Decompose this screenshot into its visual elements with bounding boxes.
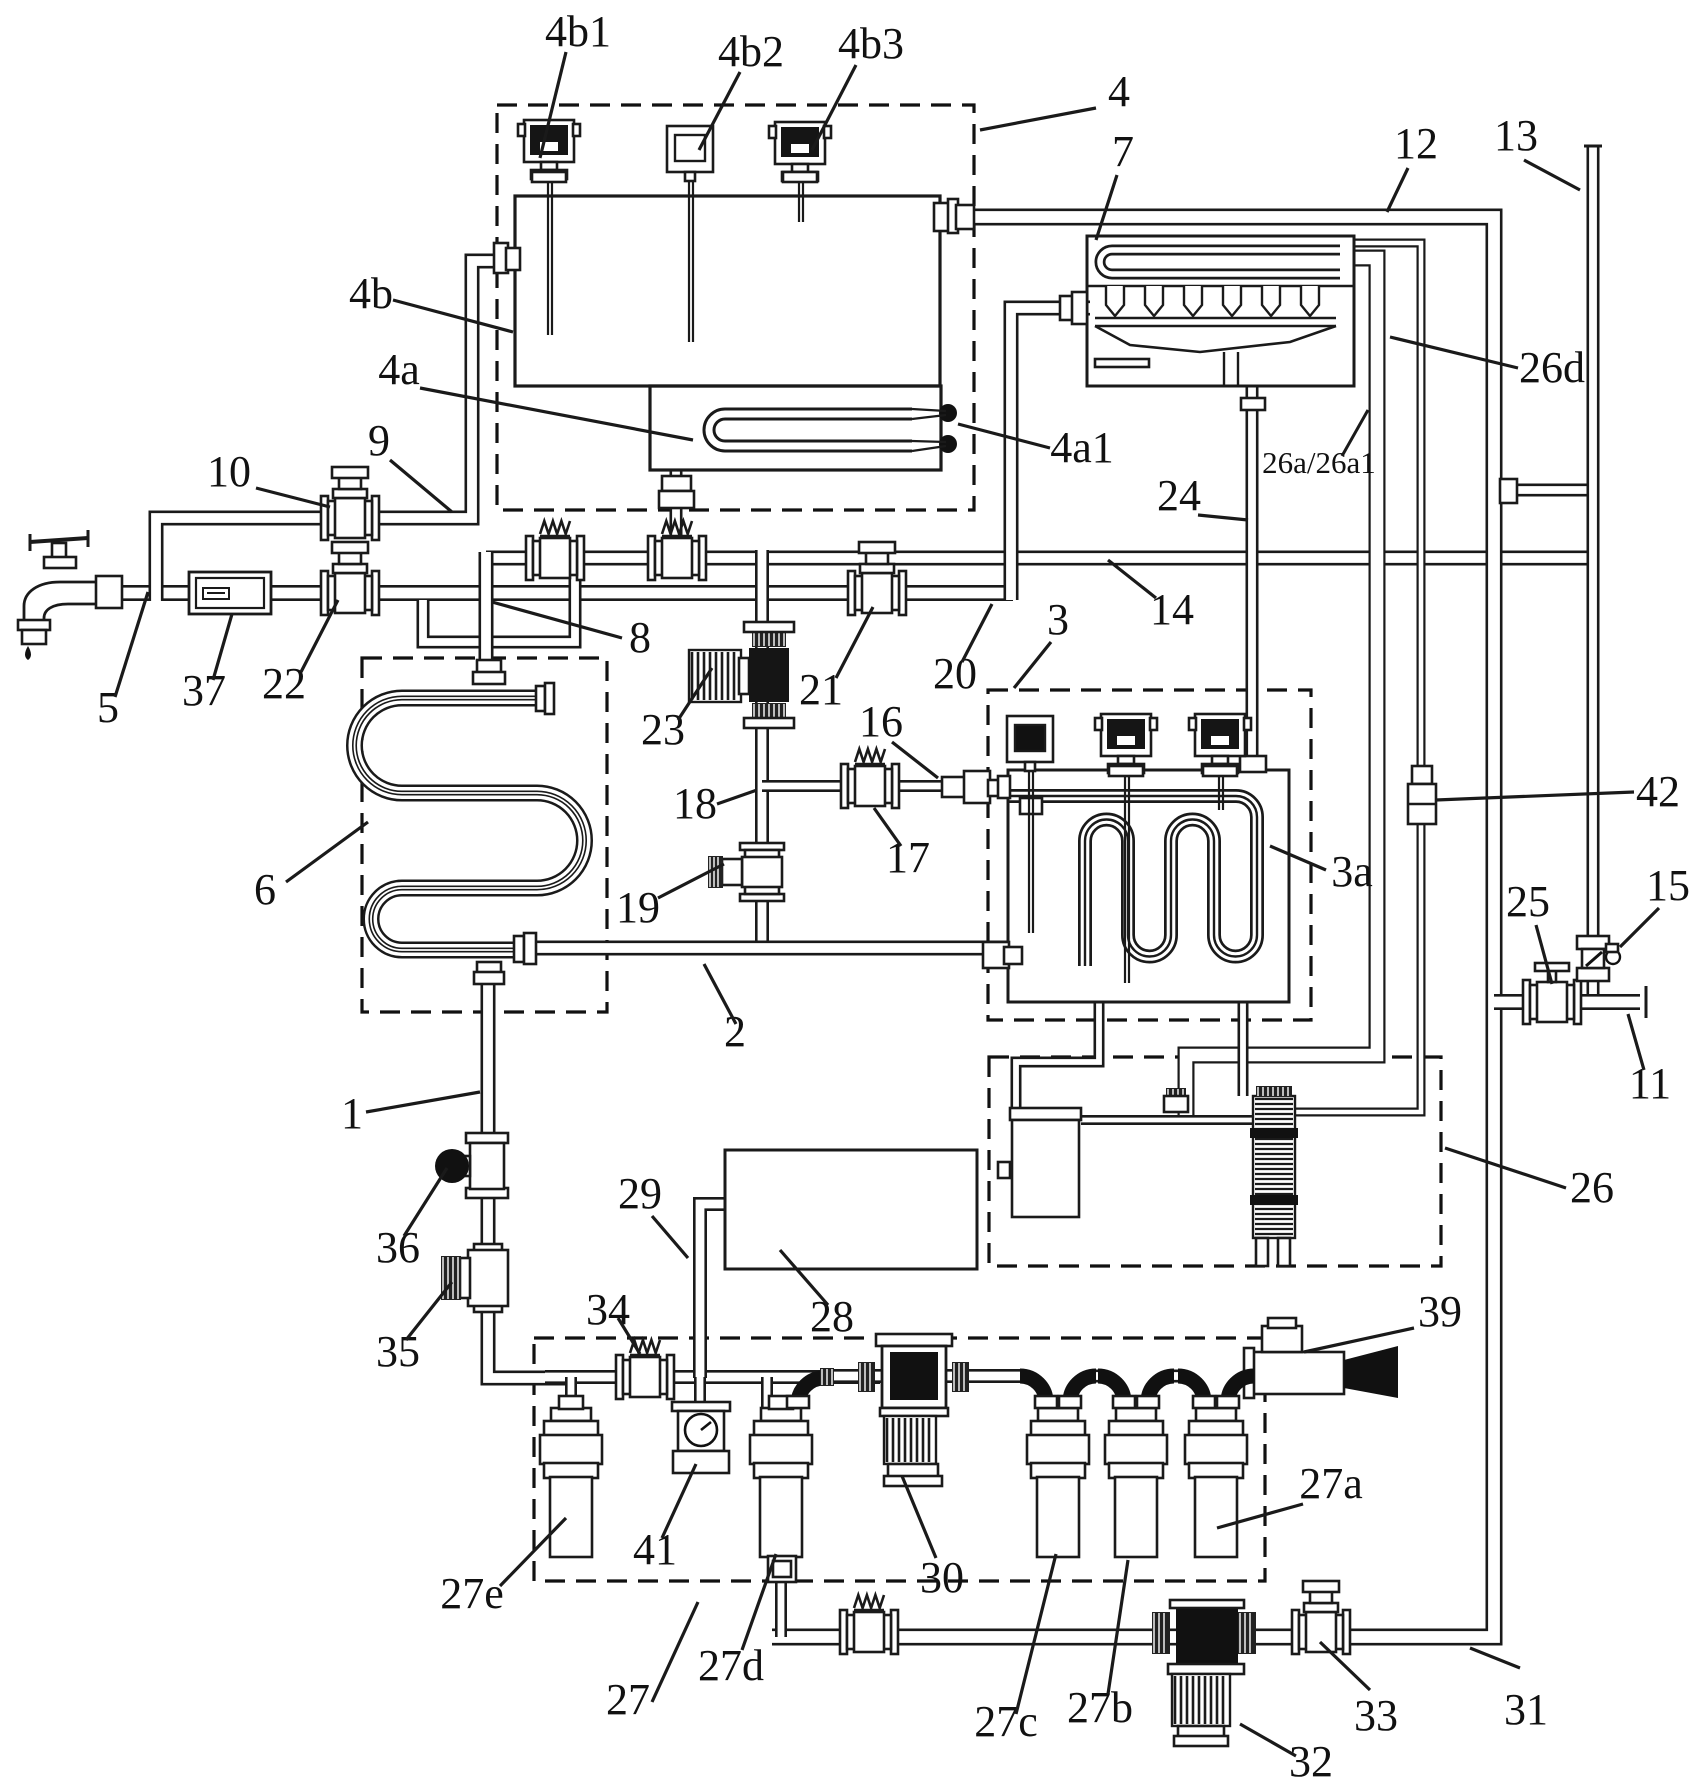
svg-text:25: 25: [1506, 877, 1550, 926]
svg-text:39: 39: [1418, 1287, 1462, 1336]
svg-text:20: 20: [933, 649, 977, 698]
svg-text:2: 2: [724, 1007, 746, 1056]
svg-text:17: 17: [886, 833, 930, 882]
svg-text:41: 41: [633, 1525, 677, 1574]
svg-text:4b3: 4b3: [838, 19, 904, 68]
svg-text:21: 21: [799, 665, 843, 714]
svg-text:42: 42: [1636, 767, 1680, 816]
svg-text:26a/26a1: 26a/26a1: [1262, 445, 1376, 480]
svg-text:27: 27: [606, 1675, 650, 1724]
svg-text:35: 35: [376, 1327, 420, 1376]
svg-text:4: 4: [1108, 67, 1130, 116]
svg-text:4b2: 4b2: [718, 27, 784, 76]
svg-text:16: 16: [859, 697, 903, 746]
svg-text:29: 29: [618, 1169, 662, 1218]
svg-text:26: 26: [1570, 1163, 1614, 1212]
svg-text:26d: 26d: [1519, 343, 1585, 392]
svg-text:18: 18: [673, 779, 717, 828]
svg-text:3: 3: [1047, 595, 1069, 644]
svg-text:33: 33: [1354, 1691, 1398, 1740]
svg-text:27b: 27b: [1067, 1683, 1133, 1732]
svg-text:7: 7: [1112, 127, 1134, 176]
svg-text:30: 30: [920, 1553, 964, 1602]
svg-text:14: 14: [1150, 585, 1194, 634]
svg-text:22: 22: [262, 659, 306, 708]
svg-text:36: 36: [376, 1223, 420, 1272]
svg-text:27e: 27e: [440, 1569, 504, 1618]
svg-text:8: 8: [629, 613, 651, 662]
svg-text:19: 19: [616, 883, 660, 932]
svg-text:13: 13: [1494, 111, 1538, 160]
svg-text:27d: 27d: [698, 1641, 764, 1690]
svg-text:4b: 4b: [349, 269, 393, 318]
svg-text:12: 12: [1394, 119, 1438, 168]
svg-text:31: 31: [1504, 1685, 1548, 1734]
svg-text:28: 28: [810, 1292, 854, 1341]
svg-text:27c: 27c: [974, 1697, 1038, 1746]
svg-text:1: 1: [341, 1089, 363, 1138]
svg-text:24: 24: [1157, 471, 1201, 520]
svg-text:10: 10: [207, 447, 251, 496]
svg-text:4a: 4a: [378, 345, 420, 394]
svg-text:32: 32: [1289, 1737, 1333, 1786]
svg-text:4b1: 4b1: [545, 7, 611, 56]
svg-text:3a: 3a: [1331, 847, 1373, 896]
svg-text:11: 11: [1629, 1059, 1671, 1108]
svg-text:15: 15: [1646, 861, 1690, 910]
svg-text:23: 23: [641, 705, 685, 754]
svg-text:27a: 27a: [1299, 1459, 1363, 1508]
svg-text:4a1: 4a1: [1050, 423, 1114, 472]
svg-text:6: 6: [254, 865, 276, 914]
svg-text:37: 37: [182, 666, 226, 715]
svg-text:9: 9: [368, 416, 390, 465]
